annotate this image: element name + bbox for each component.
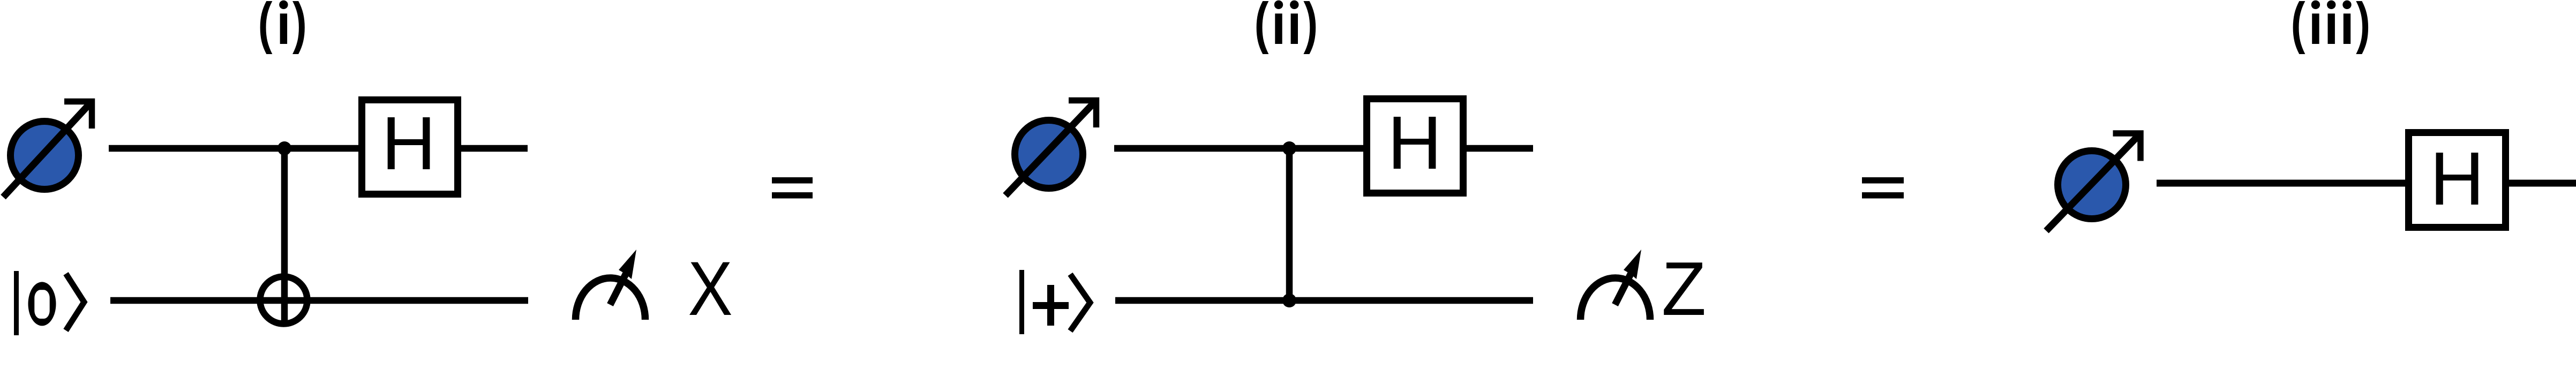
wire top (ii) (1114, 145, 1533, 152)
CNOT target (260, 277, 307, 324)
measurement meter (i) : needle head (619, 250, 636, 279)
CNOT vertical wire (281, 148, 288, 324)
measurement meter (ii) : arc (1581, 278, 1650, 320)
qubit symbol (i) : circle (11, 122, 79, 190)
svg-text:H: H (2430, 136, 2484, 221)
svg-text:(: ( (258, 0, 273, 55)
label (ii) (1255, 0, 1318, 55)
equals sign 1 (772, 177, 813, 184)
measurement meter (i) : needle shaft (610, 272, 627, 305)
svg-text:(: ( (1255, 0, 1269, 55)
H gate (ii) : box (1367, 99, 1463, 193)
qubit symbol (i) : arrow head (64, 102, 92, 129)
state label |+> : ket bracket (1070, 274, 1090, 331)
qubit symbol (i) : arrow shaft (3, 102, 92, 198)
CZ control dot top (1282, 141, 1296, 155)
qubit symbol (ii) : arrow shaft (1005, 101, 1097, 196)
svg-text:): ) (1303, 0, 1318, 55)
svg-text:Z: Z (1662, 246, 1706, 331)
H gate (iii) : box (2409, 133, 2506, 228)
measurement meter (ii) : needle head (1624, 250, 1641, 279)
svg-text:): ) (292, 0, 307, 55)
svg-text:H: H (381, 101, 436, 185)
wire bottom (ii) (1115, 297, 1533, 304)
qubit symbol (ii) : arrow head (1069, 101, 1097, 128)
CZ vertical wire (1286, 148, 1293, 300)
wire top (i) (109, 145, 528, 152)
state label |+> : plus (1033, 285, 1069, 326)
svg-text:): ) (2356, 0, 2370, 55)
wire bottom (i) (110, 297, 528, 304)
label (iii) (2291, 0, 2370, 55)
measurement meter (i) : arc (576, 278, 645, 320)
measurement meter (ii) : needle shaft (1615, 272, 1632, 305)
qubit symbol (ii) : circle (1015, 121, 1083, 189)
CNOT control dot (277, 141, 291, 155)
state label |0> : bar (14, 271, 19, 335)
label (i) (258, 0, 307, 55)
H gate (i) : box (362, 100, 458, 194)
CZ control dot bottom (1282, 293, 1296, 307)
svg-text:(: ( (2291, 0, 2305, 55)
qubit symbol (iii) : arrow head (2113, 133, 2141, 161)
state label |0> : zero (28, 282, 56, 326)
svg-text:H: H (1387, 100, 1442, 185)
qubit symbol (iii) : arrow shaft (2046, 133, 2141, 231)
equals sign 2 (1862, 177, 1904, 184)
svg-text:X: X (688, 246, 732, 332)
wire (iii) (2157, 180, 2576, 187)
state label |0> : ket bracket (66, 274, 84, 330)
state label |+> : bar (1019, 270, 1024, 334)
qubit symbol (iii) : circle (2058, 151, 2126, 219)
